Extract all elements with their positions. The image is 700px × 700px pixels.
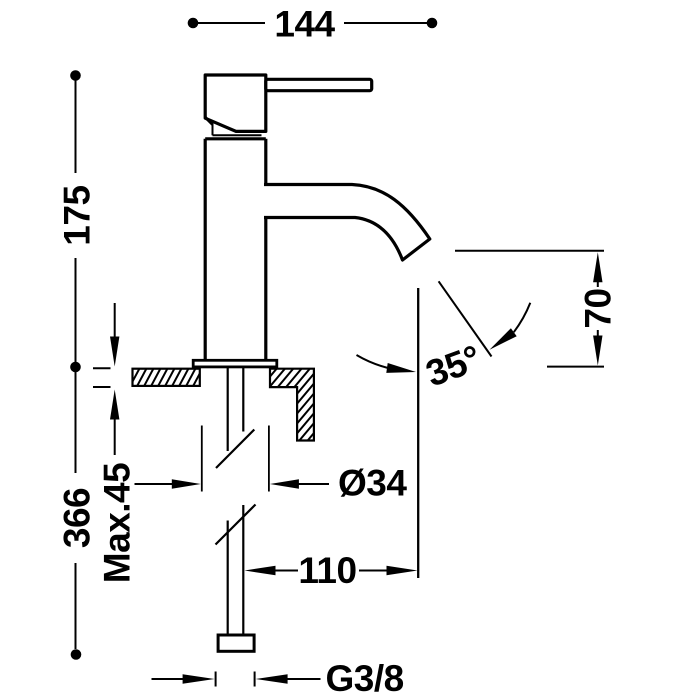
svg-text:Ø34: Ø34 [338,463,407,504]
hatching right counter piece [196,365,388,445]
faucet handle head [205,75,266,131]
handle lever [266,79,372,90]
svg-text:35°: 35° [421,337,486,394]
extension line outlet level [455,250,604,252]
extension line deck level right [547,366,604,368]
countertop left block (hatched) [133,369,200,386]
curved arrow right toward radial [514,303,531,332]
svg-text:G3/8: G3/8 [326,658,404,699]
dimension Ø34 [202,426,269,492]
svg-text:175: 175 [56,185,97,245]
countertop right L-piece (hatched) [270,369,314,441]
nut fitting G3/8 [218,635,254,651]
dimension 70 [593,252,602,282]
faucet body [205,139,266,360]
dimension G3/8 [215,672,217,687]
svg-text:70: 70 [578,288,619,328]
spout [264,185,430,261]
dimension 35 degrees radial line [439,281,492,356]
svg-text:366: 366 [56,488,97,548]
dimension 366 left [75,367,77,473]
base plate [193,360,277,367]
dimension 110 [245,566,276,575]
svg-text:Max.45: Max.45 [97,463,138,583]
dimension 144 top [193,22,432,24]
dimension 175 left [70,70,81,81]
dimension Max.45 [114,303,116,341]
supply pipe upper [216,368,254,469]
supply pipe lower [216,505,256,634]
svg-text:144: 144 [274,4,335,45]
svg-text:110: 110 [298,550,356,591]
extension line outlet axis vertical [417,288,419,578]
cartridge collar [205,117,213,125]
hatching left counter block [128,366,218,390]
curved arrow left toward vertical [357,355,389,368]
